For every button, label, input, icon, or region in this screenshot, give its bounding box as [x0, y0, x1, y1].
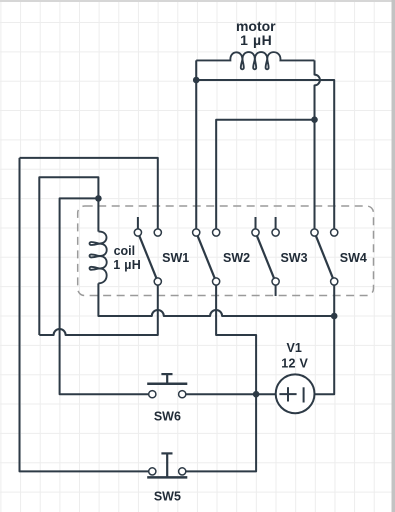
node C junction dot	[95, 195, 102, 202]
pushbutton SW6 normally-open	[147, 374, 187, 398]
wire node C left then down to SW6 left terminal	[60, 198, 149, 394]
wire inner rectangle from SW1 return up and over to node C	[39, 177, 98, 335]
stub SW3 top-left terminal	[255, 217, 257, 229]
node B junction dot	[311, 116, 318, 123]
switch SW4	[311, 229, 338, 285]
wire motor left lead down to SW4 throw (through node A)	[195, 60, 197, 229]
svg-text:1 µH: 1 µH	[240, 32, 272, 48]
svg-text:V1: V1	[287, 341, 302, 355]
switch SW1	[134, 229, 161, 285]
svg-text:SW3: SW3	[280, 251, 307, 265]
wire SW1 top-right terminal riser and horizontal run to left rail	[20, 158, 158, 229]
svg-text:SW2: SW2	[223, 251, 250, 265]
pushbutton SW5 normally-closed	[147, 453, 187, 477]
relay enclosure dashed box	[78, 206, 374, 296]
wire SW4 bottom terminal down through node D to V1 positive side	[315, 285, 335, 394]
wire motor right lead down with hop over node-A wire, to SW2 throw (through node B)	[315, 60, 320, 229]
node D junction dot	[331, 313, 338, 320]
inductor coil 1 uH	[90, 232, 107, 284]
wire coil bottom right-run with hops over SW1 and SW2 drops, to node D	[98, 283, 334, 316]
svg-text:12 V: 12 V	[281, 357, 308, 371]
wire node B horizontal left then down to SW2 top-right terminal	[216, 120, 314, 229]
node A junction dot	[193, 77, 200, 84]
wire SW6 right terminal to V1 left side through node E	[186, 393, 276, 395]
wire SW1 bottom terminal down and left with hop over SW6 feed	[39, 285, 158, 335]
switch SW2	[193, 229, 220, 285]
svg-text:coil: coil	[114, 244, 136, 258]
node E junction dot	[253, 391, 260, 398]
inductor motor 1 uH	[196, 52, 314, 69]
stub SW3 bottom terminal	[275, 285, 277, 296]
stub SW3 top-right terminal	[275, 217, 277, 229]
wire outer left rail down to SW5 left terminal	[20, 158, 149, 472]
wire node C down to coil top	[97, 198, 99, 231]
voltage source V1 12V	[276, 374, 315, 413]
wire node A horizontal to right then down to SW4 top-right terminal	[196, 80, 334, 229]
svg-text:1 µH: 1 µH	[113, 258, 141, 272]
stub SW1 top-left terminal	[137, 217, 139, 229]
wire SW2 bottom terminal down, right, down through node E to SW5 right terminal	[186, 285, 256, 471]
svg-text:SW4: SW4	[340, 251, 367, 265]
switch SW3	[252, 229, 279, 285]
svg-text:SW1: SW1	[162, 251, 189, 265]
svg-text:SW6: SW6	[154, 410, 181, 424]
svg-text:SW5: SW5	[154, 489, 181, 503]
